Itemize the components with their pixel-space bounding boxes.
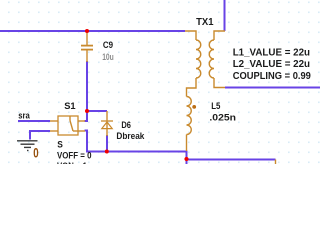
svg-text:VON = 1: VON = 1 <box>57 161 88 164</box>
svg-text:TX1: TX1 <box>196 17 214 28</box>
svg-text:.025n: .025n <box>209 113 236 124</box>
svg-text:COUPLING = 0.99: COUPLING = 0.99 <box>233 71 312 82</box>
svg-text:sra: sra <box>18 111 30 122</box>
svg-text:L2_VALUE = 22u: L2_VALUE = 22u <box>233 59 310 70</box>
svg-text:10u: 10u <box>102 52 114 63</box>
svg-text:S1: S1 <box>64 101 76 112</box>
svg-text:S: S <box>57 139 63 150</box>
svg-text:C9: C9 <box>103 40 113 51</box>
svg-text:VOFF = 0: VOFF = 0 <box>57 150 92 161</box>
svg-text:L1_VALUE = 22u: L1_VALUE = 22u <box>233 47 310 58</box>
svg-text:D6: D6 <box>121 120 131 131</box>
svg-text:0: 0 <box>33 145 39 160</box>
svg-text:L5: L5 <box>211 101 221 112</box>
svg-text:Dbreak: Dbreak <box>116 131 145 142</box>
